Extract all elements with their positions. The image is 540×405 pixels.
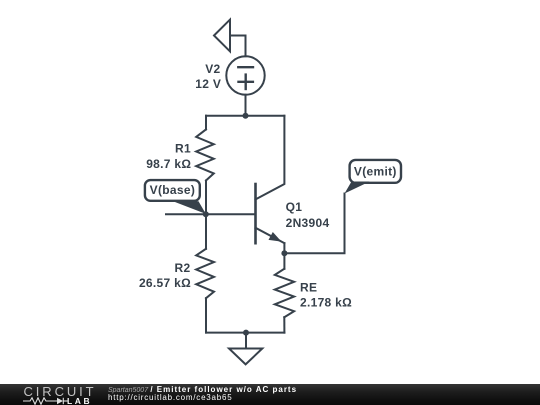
svg-text:2.178 kΩ: 2.178 kΩ: [300, 296, 352, 310]
transistor Q1 body bar: [254, 184, 257, 243]
footer url: [108, 393, 232, 402]
resistor R2: [196, 249, 214, 298]
footer bar: [0, 384, 540, 405]
wire base row: [166, 213, 256, 215]
junction emitter node: [281, 250, 287, 256]
svg-text:RE: RE: [300, 281, 317, 295]
svg-text:98.7 kΩ: 98.7 kΩ: [146, 157, 191, 171]
svg-text:V2: V2: [205, 62, 220, 76]
svg-text:V(base): V(base): [150, 183, 195, 197]
svg-text:Q1: Q1: [286, 200, 303, 214]
ground (bottom): [229, 349, 262, 365]
wire ground to V2 top: [230, 36, 246, 57]
footer credit text: [108, 385, 297, 394]
junction bottom rail: [243, 330, 249, 336]
svg-text:12 V: 12 V: [195, 77, 221, 91]
voltage source V2: [226, 56, 264, 94]
wire emitter stub: [283, 243, 285, 253]
flag V(base) box: [145, 180, 200, 201]
ground (top, rotated): [214, 20, 230, 52]
wire base node to R2: [205, 214, 207, 249]
footer logo LAB: [67, 397, 92, 405]
flag V(emit) box: [350, 160, 401, 183]
svg-text:2N3904: 2N3904: [286, 216, 330, 230]
wire bottom rail: [206, 332, 284, 334]
junction base node: [203, 211, 209, 217]
wire emitter row to flag riser: [284, 194, 344, 254]
wire RE to bottom rail: [283, 317, 285, 332]
wire R2 to bottom rail: [205, 298, 207, 332]
footer logo CIRCUIT: [24, 386, 97, 397]
flag V(emit) tail: [345, 182, 370, 194]
svg-text:26.57 kΩ: 26.57 kΩ: [139, 276, 191, 290]
wire emitter node to RE: [283, 253, 285, 268]
svg-text:R1: R1: [175, 142, 191, 156]
junction top rail: [243, 113, 249, 119]
wire V2 bottom to top rail: [245, 95, 247, 116]
wire bottom rail to ground: [245, 333, 247, 348]
wire collector from top rail: [256, 116, 285, 200]
resistor RE: [275, 269, 294, 317]
flag V(base) tail: [173, 201, 206, 214]
svg-text:V(emit): V(emit): [354, 164, 397, 178]
wire R1 to base node: [205, 181, 207, 215]
wire top rail to R1: [205, 116, 207, 130]
resistor R1: [196, 129, 214, 180]
footer logo squiggle: [23, 396, 69, 405]
wire top rail: [206, 115, 284, 117]
transistor Q1 emitter arrow: [269, 232, 282, 242]
transistor Q1 emitter line: [256, 228, 285, 243]
svg-text:R2: R2: [175, 261, 191, 275]
